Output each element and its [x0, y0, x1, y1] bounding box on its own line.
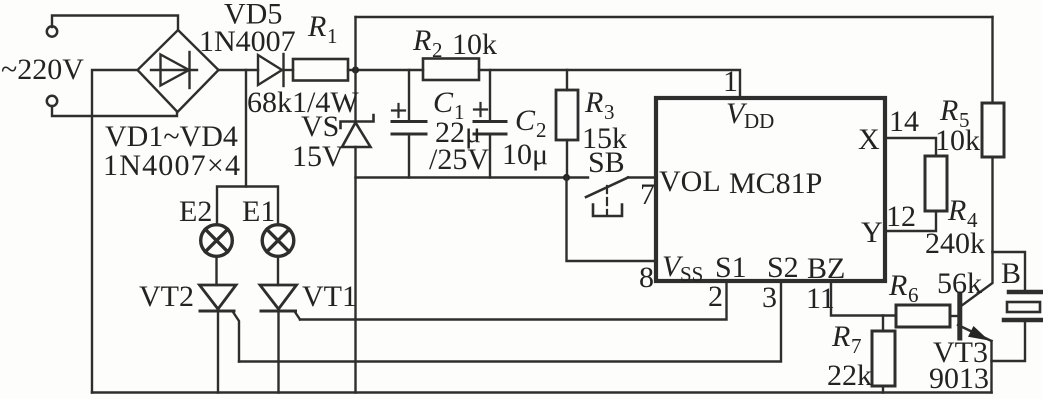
wire E1 to VT1	[277, 257, 279, 286]
buzzer B piezo disc	[1007, 302, 1040, 312]
capacitor C1 plates	[392, 122, 426, 135]
wire node to pin8	[567, 178, 657, 262]
diode VD5	[258, 54, 284, 86]
wire E2 to VT2	[215, 257, 217, 286]
svg-text:C: C	[433, 86, 454, 119]
svg-text:10k: 10k	[935, 124, 980, 157]
svg-text:DD: DD	[744, 109, 774, 133]
wire VD5 to R1	[284, 69, 294, 71]
svg-text:~220V: ~220V	[1, 53, 84, 86]
capacitor C1 bottom lead	[408, 134, 410, 178]
wire collector junction to buzzer top	[993, 252, 1026, 290]
zener VS cathode bar	[341, 115, 374, 128]
terminal (top)	[47, 26, 57, 36]
resistor R5 top lead from rail	[991, 17, 993, 103]
wire buzzer bottom to emitter	[992, 320, 1026, 361]
wire top rail	[356, 16, 993, 18]
svg-text:3: 3	[762, 281, 777, 314]
svg-text:12: 12	[886, 200, 916, 233]
svg-text:6: 6	[908, 283, 919, 307]
resistor R6	[896, 305, 950, 327]
svg-text:R: R	[831, 320, 850, 353]
svg-text:8: 8	[639, 261, 654, 294]
resistor R5	[982, 103, 1004, 157]
wire VT2 cathode to bottom rail	[217, 309, 219, 393]
resistor R3 leads	[566, 70, 568, 178]
svg-text:10k: 10k	[452, 28, 497, 61]
svg-text:/25V: /25V	[429, 143, 489, 176]
wire lamp branch split	[217, 187, 278, 226]
capacitor C1 top lead	[408, 70, 410, 121]
svg-text:240k: 240k	[925, 227, 985, 260]
wire pin14 X to R4	[885, 138, 936, 156]
wire R4 to pin12 Y	[885, 211, 936, 231]
svg-text:SB: SB	[588, 146, 625, 179]
resistor R4	[925, 156, 947, 211]
svg-text:1N4007×4: 1N4007×4	[103, 149, 241, 182]
capacitor C2 top lead	[489, 70, 491, 121]
transistor VT3 emitter	[958, 325, 992, 341]
svg-text:3: 3	[604, 100, 615, 124]
svg-text:VT2: VT2	[139, 280, 194, 313]
wire R2 to IC pin1 corner	[479, 70, 740, 98]
transistor VT3 collector	[960, 252, 993, 307]
wire AC top: terminal to bridge top vertex	[52, 16, 178, 31]
wire AC bottom: terminal to bridge bottom vertex	[52, 106, 177, 116]
svg-text:7: 7	[851, 334, 862, 358]
bridge inner diode	[151, 52, 197, 88]
resistor R2	[423, 59, 479, 81]
svg-text:BZ: BZ	[807, 252, 845, 285]
svg-text:10μ: 10μ	[502, 138, 548, 171]
svg-text:56k: 56k	[937, 267, 982, 300]
wire lamp branch tap	[245, 70, 247, 187]
C1 plus sign	[392, 104, 405, 117]
resistor R1	[293, 59, 348, 81]
resistor R3	[556, 90, 578, 140]
svg-text:E2: E2	[179, 195, 212, 228]
zener VS triangle	[342, 123, 371, 148]
buzzer B top electrode	[1009, 290, 1043, 295]
svg-text:X: X	[858, 123, 880, 156]
wire pin3 to S2 line	[239, 281, 781, 362]
svg-text:1: 1	[723, 65, 738, 98]
buzzer B bottom electrode	[1004, 318, 1043, 323]
node junction dot SB	[563, 174, 570, 181]
svg-text:2: 2	[432, 38, 443, 62]
svg-text:1: 1	[327, 24, 338, 48]
svg-text:R: R	[947, 194, 966, 227]
node junction dot	[352, 66, 359, 73]
svg-text:2: 2	[708, 280, 723, 313]
capacitor C2 bottom lead	[489, 134, 491, 178]
thyristor VT1	[260, 285, 297, 311]
wire VT1 gate to S1 line	[295, 312, 300, 320]
svg-text:R: R	[412, 24, 431, 57]
C2 plus sign	[474, 103, 487, 116]
lamp E1	[262, 225, 294, 257]
svg-text:R: R	[307, 10, 326, 43]
wire ground mini-rail (C1,C2,R3,SB common)	[356, 176, 589, 178]
switch SB blade	[586, 178, 628, 198]
lamp E2	[201, 225, 233, 257]
bridge rectifier VD1~VD4 diamond	[138, 30, 219, 112]
svg-text:15V: 15V	[292, 140, 344, 173]
wire pin2 to S1 line	[300, 281, 727, 320]
wire riser node to top rail	[354, 17, 356, 70]
wire bridge left vertex to ground left rail	[92, 70, 138, 393]
svg-text:VS: VS	[301, 110, 339, 143]
svg-text:MC81P: MC81P	[729, 167, 822, 200]
wire bottom rail	[92, 391, 992, 394]
svg-text:7: 7	[640, 178, 655, 211]
svg-text:9013: 9013	[929, 362, 989, 395]
IC U1 MC81P body	[656, 98, 885, 281]
wire bridge right vertex to VD5	[219, 69, 259, 71]
svg-text:R: R	[888, 269, 907, 302]
svg-text:VT1: VT1	[302, 280, 357, 313]
wire zener branch vertical (node down through VS to bottom rail)	[354, 70, 356, 121]
wire R6 to VT3 base	[950, 315, 958, 317]
SB actuator bracket	[593, 205, 622, 217]
wire VS anode down to ground rails	[354, 147, 356, 393]
svg-text:E1: E1	[242, 195, 275, 228]
wire VT1 cathode to bottom rail	[277, 309, 279, 393]
svg-text:R: R	[584, 86, 603, 119]
resistor R7	[872, 331, 895, 386]
svg-text:C: C	[515, 104, 536, 137]
svg-text:SS: SS	[680, 262, 703, 286]
svg-text:11: 11	[806, 282, 835, 315]
capacitor C2 plates	[474, 122, 506, 135]
svg-text:R: R	[939, 94, 958, 127]
svg-text:VOL: VOL	[659, 165, 721, 198]
wire SB to pin7	[628, 176, 656, 178]
svg-text:S2: S2	[767, 251, 799, 284]
svg-text:Y: Y	[861, 216, 883, 249]
wire VT3 emitter to bottom rail	[990, 341, 992, 393]
transistor VT3 base bar	[957, 294, 962, 338]
resistor R5 bottom lead	[991, 157, 993, 252]
VT3 emitter arrow	[968, 326, 989, 341]
thyristor VT2	[200, 285, 237, 311]
resistor R7 leads	[882, 316, 884, 393]
wire VT2 gate to S2 line	[233, 312, 239, 362]
svg-text:1N4007: 1N4007	[199, 25, 296, 58]
terminal (bottom)	[47, 96, 57, 106]
svg-text:B: B	[1001, 257, 1021, 290]
SB actuator dashed rod	[606, 186, 608, 214]
wire R1 to R2 (through node)	[348, 69, 423, 71]
svg-text:22k: 22k	[827, 359, 872, 392]
wire pin11 to R6	[831, 281, 896, 316]
svg-text:14: 14	[889, 105, 919, 138]
